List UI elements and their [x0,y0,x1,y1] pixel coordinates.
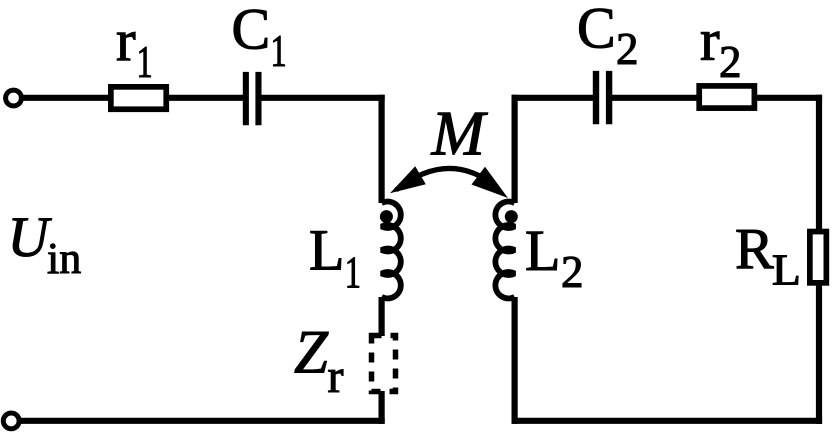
label Uin [8,206,82,283]
svg-text:2: 2 [561,247,584,297]
impedance Zr (dashed box) [372,336,396,392]
label Zr [294,320,344,404]
label L1 [309,218,361,298]
wire: Zr box down to bottom wire [379,391,385,424]
inductor L1 [382,202,401,299]
svg-text:2: 2 [616,24,639,74]
svg-text:1: 1 [137,38,153,87]
capacitor C1 [246,72,259,125]
svg-text:1: 1 [345,248,361,297]
svg-text:C: C [577,0,616,60]
label r2 [700,7,742,87]
wire: RL down to bottom-right corner [816,285,822,424]
svg-text:Z: Z [294,320,329,387]
svg-text:L: L [525,218,560,283]
mutual coupling arrow M [390,166,508,198]
label C1 [232,0,287,76]
wire: secondary loop top, corner to C2 [512,95,595,101]
wire: L1 to Zr box [379,297,385,336]
svg-text:R: R [735,217,774,282]
wire: C2 to r2 [612,95,698,101]
svg-text:in: in [47,234,81,283]
wire: top-left terminal to r1 [22,95,113,101]
svg-text:C: C [232,0,271,62]
arrow arc [396,168,498,190]
capacitor C2 [596,71,609,124]
resistor r1 [111,87,166,109]
arrowhead left [390,166,426,193]
terminal: input top-left [6,90,22,106]
svg-text:1: 1 [271,27,287,76]
label r1 [116,7,153,87]
wire: primary loop right vertical, down to L1 [379,95,385,203]
svg-text:M: M [431,98,489,169]
svg-text:r: r [700,7,720,73]
label L2 [525,218,584,297]
svg-text:U: U [8,206,53,269]
label RL [735,217,801,295]
wire: r1 to C1 [166,95,244,101]
resistor RL (load) [810,232,827,283]
svg-text:r: r [328,350,344,403]
wire: C1 to top-right corner of primary loop [261,95,385,101]
terminal: input bottom-left [3,413,19,429]
C2 right plate [606,71,612,124]
C2 left plate [593,71,599,124]
svg-text:L: L [309,218,344,283]
arrowhead right [472,167,509,198]
C1 left plate [243,72,249,125]
polarity dot of L1 [380,210,393,223]
wire: r2 to top-right corner [756,95,822,101]
wire: secondary loop right vertical, down to RL [816,95,822,229]
resistor r2 [699,86,754,108]
C1 right plate [255,72,261,125]
svg-text:2: 2 [719,37,742,87]
polarity dot of L2 [505,210,518,223]
inductor L2 [495,202,514,299]
wire: bottom-left corner of secondary loop up to L2 [511,297,517,424]
svg-text:L: L [772,245,801,294]
wire: secondary loop left vertical, down to L2 [511,95,517,203]
label C2 [577,0,639,74]
wire: secondary loop bottom [512,418,823,424]
svg-text:r: r [116,7,136,73]
wire: primary loop bottom [21,418,385,424]
